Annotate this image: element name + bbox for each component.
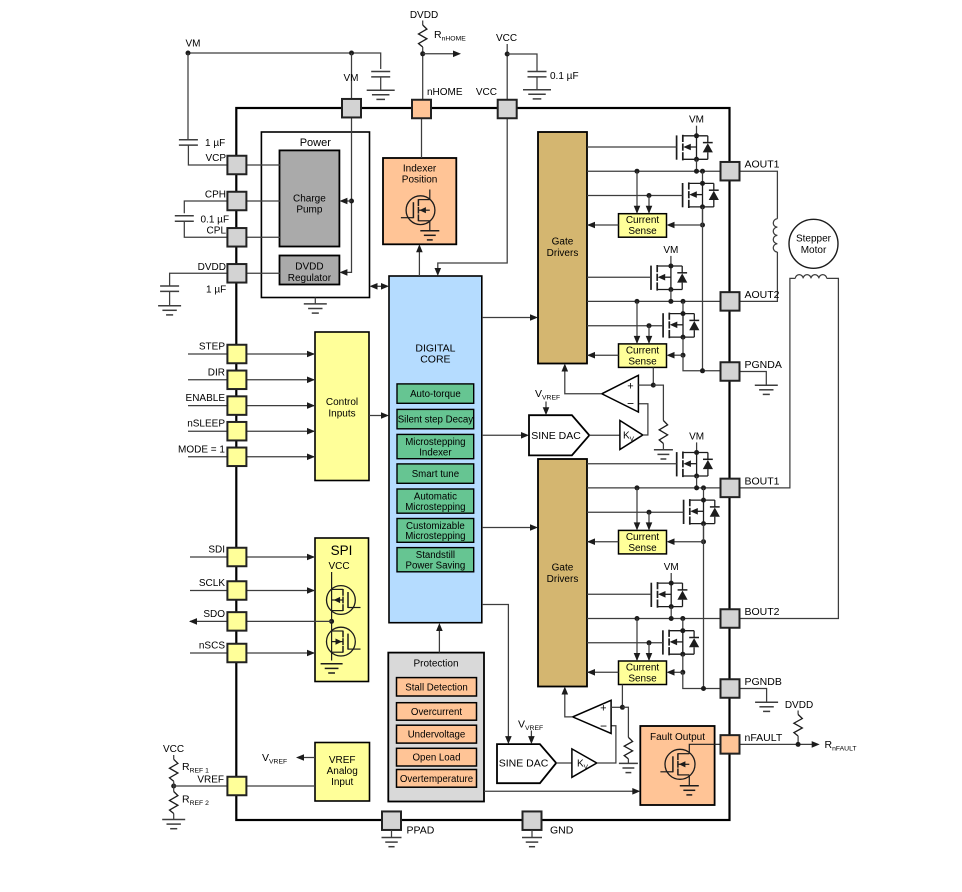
feature box: Customizable Microstepping — [397, 519, 474, 543]
wire nSCS — [190, 652, 315, 654]
pin DIR (left) — [227, 371, 246, 390]
wire nHOME pin to indexer block — [421, 118, 423, 158]
svg-text:+: + — [627, 381, 633, 393]
pin MODE = 1 (left) — [227, 448, 246, 467]
wire RnHOME to nHOME pin — [422, 47, 424, 100]
wire cap to ground — [380, 77, 382, 90]
svg-text:0.1 µF: 0.1 µF — [201, 215, 230, 226]
node source low A2 — [681, 335, 686, 340]
node drain low A1 — [700, 181, 705, 186]
wire to sense resistor A — [653, 385, 663, 420]
node source low A1 — [700, 204, 705, 209]
node drain high B1 — [694, 450, 699, 455]
bidirectional wire power block - digital core — [373, 285, 386, 287]
wire DIR input — [188, 379, 315, 381]
svg-text:VCP: VCP — [205, 153, 226, 164]
sense resistor B — [624, 737, 632, 759]
charge pump block — [280, 150, 340, 246]
DVDD regulator block — [280, 256, 340, 285]
node nFAULT pull-up — [796, 742, 801, 747]
SPI ground — [321, 663, 343, 665]
arrowhead ENABLE into control inputs — [307, 402, 315, 409]
svg-text:Smart tune: Smart tune — [412, 469, 459, 480]
arrowhead VCC into digital core — [435, 268, 442, 276]
wire digital core to sine dac B — [482, 605, 508, 742]
wire output to low drain A2 — [682, 301, 684, 313]
node comparator B plus — [620, 705, 625, 710]
svg-text:STEP: STEP — [199, 342, 225, 353]
high-side FET A1 — [677, 135, 713, 161]
svg-text:VM: VM — [663, 245, 678, 256]
svg-text:Sense: Sense — [628, 356, 657, 367]
sense arrow from gate wire B1 — [648, 512, 650, 529]
ground at PGNDB — [755, 701, 778, 703]
svg-text:VM: VM — [689, 115, 704, 126]
arrowhead current sense to gate drivers A1 — [587, 222, 595, 229]
svg-text:Current: Current — [626, 532, 660, 543]
wire high source to output A2 — [670, 290, 672, 302]
comparator B plus input wire — [611, 706, 622, 708]
pin BOUT2 (right) — [721, 609, 740, 628]
svg-text:Indexer: Indexer — [419, 447, 452, 458]
pin SCLK (left) — [227, 581, 246, 600]
wire current sense output B1 — [587, 541, 619, 543]
arrowhead VVREF out — [296, 754, 304, 761]
SPI block — [315, 538, 369, 682]
node sense tap B2 — [680, 670, 685, 675]
pin SDO (left) — [227, 612, 246, 631]
protection feature box: Undervoltage — [397, 725, 477, 743]
current sense block A2 — [619, 344, 667, 368]
svg-text:Gate: Gate — [552, 563, 574, 574]
current sense block A1 — [619, 214, 667, 238]
svg-text:VM: VM — [186, 39, 201, 50]
wire high source to output B2 — [670, 607, 672, 619]
svg-text:CORE: CORE — [420, 354, 450, 366]
svg-text:Gate: Gate — [552, 237, 574, 248]
svg-text:DVDD: DVDD — [785, 700, 813, 711]
node comparator A plus — [651, 383, 656, 388]
sense resistor A — [659, 421, 667, 444]
sense bus A to PGNDA — [702, 207, 704, 371]
svg-text:Auto-torque: Auto-torque — [410, 389, 461, 400]
svg-text:Protection: Protection — [413, 659, 458, 670]
wire cap to VCP pin — [188, 145, 227, 165]
VVREF reference output wire — [303, 757, 315, 759]
stepper motor circle — [789, 219, 838, 268]
arrowhead into current sense A1 (right) — [667, 222, 675, 229]
low-side FET B1 — [684, 499, 720, 525]
arrowhead MODE = 1 into control inputs — [307, 454, 315, 461]
svg-text:SINE DAC: SINE DAC — [499, 758, 549, 770]
svg-text:VCC: VCC — [496, 33, 517, 44]
wire high source to output B1 — [696, 476, 698, 488]
wire RREF2 to ground — [173, 814, 175, 820]
nFAULT external wire — [740, 743, 815, 745]
svg-text:Sense: Sense — [628, 543, 657, 554]
svg-text:DIR: DIR — [208, 367, 225, 378]
svg-text:Overcurrent: Overcurrent — [411, 707, 462, 718]
node output-CS A1 — [635, 169, 640, 174]
svg-text:VCC: VCC — [163, 744, 184, 755]
node drain high B2 — [669, 581, 674, 586]
wire DVDD to regulator — [246, 272, 280, 274]
wire MODE = 1 input — [188, 456, 315, 458]
sense arrow from gate wire B2 — [648, 643, 650, 660]
pin VCP (left) — [227, 156, 246, 175]
svg-text:BOUT2: BOUT2 — [745, 606, 780, 618]
pin CPH (left) — [227, 192, 246, 211]
feature box: Standstill Power Saving — [397, 548, 474, 572]
node on VM rail at VM pin — [349, 51, 354, 56]
resistor RREF2 — [170, 792, 178, 814]
external wire AOUT1 to motor winding A — [740, 171, 778, 219]
VM internal supply wire — [343, 117, 352, 272]
arrowhead nSLEEP into control inputs — [307, 428, 315, 435]
wire current sense output A2 — [587, 354, 619, 356]
PPAD ground — [391, 830, 393, 837]
feature box: Microstepping Indexer — [397, 434, 474, 458]
svg-text:VCC: VCC — [328, 561, 349, 572]
wire current sense B2 to comparator plus — [621, 685, 623, 708]
arrowhead into digital core (control) — [381, 412, 389, 419]
wire VM rail down to VM pin — [351, 53, 353, 99]
feature box: Auto-torque — [397, 384, 474, 403]
gate drivers block B — [538, 459, 587, 687]
pin PGNDB (right) — [721, 679, 740, 698]
wire control inputs to digital core — [369, 415, 386, 417]
wire low source to sense tap B1 — [703, 524, 705, 542]
arrowhead current sense to gate drivers B2 — [587, 669, 595, 676]
svg-text:Charge: Charge — [293, 194, 326, 205]
ground of sense resistor B — [619, 762, 638, 764]
node drain low B1 — [701, 498, 706, 503]
comparator A plus input wire — [638, 384, 653, 386]
wire STEP input — [188, 353, 315, 355]
wire nSLEEP input — [188, 430, 315, 432]
arrowhead into fault output block — [632, 788, 640, 795]
wire protection to digital core — [438, 629, 440, 653]
pin GND (bottom) — [523, 811, 542, 830]
svg-text:Drivers: Drivers — [547, 574, 579, 585]
arrowhead into gate drivers A — [530, 314, 538, 321]
GND ground — [531, 830, 533, 837]
output wire A1 — [587, 170, 721, 172]
sine dac B — [497, 744, 556, 783]
sense arrow from output wire B2 — [636, 619, 638, 661]
svg-text:Sense: Sense — [628, 226, 657, 237]
ground inside indexer block — [429, 221, 431, 231]
pin PGNDA (right) — [721, 362, 740, 381]
node gate-CS B1 — [647, 510, 652, 515]
node output low A1 — [700, 169, 705, 174]
wire to sense resistor B — [622, 707, 628, 737]
wire DVDD pin to 1uF cap — [170, 273, 228, 286]
high-side FET B2 — [651, 582, 687, 608]
wire node to charge pump — [343, 200, 352, 202]
ground of power block — [314, 298, 316, 304]
wire VCP to charge pump — [246, 164, 280, 166]
svg-text:1 µF: 1 µF — [206, 285, 226, 296]
control inputs block — [315, 332, 369, 481]
Kv gain amp A — [620, 421, 643, 450]
svg-text:VREF: VREF — [197, 775, 224, 786]
sense bus B to PGNDB — [703, 524, 705, 689]
wire cap to ground — [536, 77, 538, 90]
wire B2 sense to PGNDB rail — [683, 672, 721, 688]
node output high A2 — [668, 299, 673, 304]
svg-text:−: − — [627, 397, 634, 411]
node drain low A2 — [681, 311, 686, 316]
wire sine dac B to Kv B — [556, 762, 572, 764]
pin nSCS (left) — [227, 644, 246, 663]
sense arrow from output wire B1 — [636, 488, 638, 530]
feature box: Smart tune — [397, 464, 474, 483]
gate drivers block A — [538, 132, 587, 364]
node gate-CS B2 — [647, 640, 652, 645]
wire output to low drain B1 — [703, 488, 705, 500]
node sense tap A1 — [700, 223, 705, 228]
gate wire low-side B2 — [587, 642, 663, 644]
protection feature box: Overcurrent — [397, 703, 477, 721]
pin BOUT1 (right) — [721, 479, 740, 498]
wire CPL to charge pump — [246, 236, 280, 238]
pin nSLEEP (left) — [227, 422, 246, 441]
resistor RREF1 — [170, 759, 178, 781]
low-side FET A1 — [683, 182, 719, 208]
fault output block — [640, 726, 714, 805]
indexer position block — [383, 158, 456, 244]
svg-text:Undervoltage: Undervoltage — [408, 730, 466, 741]
svg-text:DVDD: DVDD — [295, 262, 323, 273]
wire VM rail to VCP decoupling cap — [187, 53, 189, 140]
motor winding B coil — [795, 275, 826, 279]
wire VCC to VCC pin — [506, 44, 508, 100]
arrowhead SCLK into SPI — [307, 587, 315, 594]
wire DVDD to RnFAULT — [797, 711, 799, 715]
pin CPL (left) — [227, 228, 246, 247]
wire current sense output B2 — [587, 671, 619, 673]
svg-text:nSCS: nSCS — [199, 641, 225, 652]
wire CPH pin to flying cap — [184, 201, 228, 213]
output wire B2 — [587, 618, 721, 620]
node VM rail left end — [186, 51, 191, 56]
arrowhead into current sense A2 (right) — [667, 352, 675, 359]
svg-text:VM: VM — [689, 431, 704, 442]
wire RnFAULT to nFAULT node — [797, 736, 799, 744]
arrowhead comparator B to gate drivers — [562, 687, 569, 695]
high-side FET A2 — [651, 265, 687, 291]
wire protection to fault output block — [484, 790, 637, 792]
svg-text:Indexer: Indexer — [403, 164, 437, 175]
wire divider node to VREF pin and block — [173, 781, 175, 791]
node output high B1 — [694, 485, 699, 490]
gate wire high-side B1 — [587, 463, 677, 465]
svg-text:nFAULT: nFAULT — [745, 732, 783, 744]
arrowhead into gate drivers B — [530, 524, 538, 531]
svg-text:Sense: Sense — [628, 674, 657, 685]
arrowhead to power block — [370, 283, 378, 290]
bulk capacitor on VM rail — [371, 71, 390, 73]
arrowhead SDI into SPI — [307, 554, 315, 561]
wire low source to sense tap A2 — [682, 337, 684, 355]
node output low B1 — [701, 485, 706, 490]
wire DVDD to RnHOME — [422, 21, 424, 26]
svg-text:Silent step Decay: Silent step Decay — [398, 415, 474, 426]
sine dac A — [529, 415, 589, 455]
wire current sense A2 to comparator plus — [652, 367, 654, 385]
svg-text:Inputs: Inputs — [328, 409, 355, 420]
svg-text:Stepper: Stepper — [796, 234, 832, 245]
wire sense tap to current sense B2 — [670, 671, 683, 673]
svg-text:Stall Detection: Stall Detection — [405, 682, 467, 693]
wire sense tap to current sense A1 — [670, 224, 703, 226]
node nHOME pull-up — [420, 51, 425, 56]
svg-text:nSLEEP: nSLEEP — [187, 419, 225, 430]
arrowhead DIR into control inputs — [307, 377, 315, 384]
external wire winding B to BOUT2 — [740, 278, 839, 618]
svg-text:Power Saving: Power Saving — [406, 561, 466, 572]
external wire winding A to AOUT2 — [740, 252, 778, 301]
VM lead A2 high-side — [670, 256, 672, 266]
svg-text:Position: Position — [402, 175, 438, 186]
svg-text:Input: Input — [331, 777, 353, 788]
pin STEP (left) — [227, 345, 246, 364]
node output high A1 — [694, 169, 699, 174]
svg-text:Pump: Pump — [296, 205, 323, 216]
arrowhead into current sense B1 (right) — [667, 538, 675, 545]
svg-text:DVDD: DVDD — [198, 262, 226, 273]
SPI pull-down transistor Q11 — [327, 627, 361, 656]
arrowhead nFAULT external — [812, 741, 820, 748]
pin nFAULT (right) — [721, 735, 740, 754]
svg-text:PPAD: PPAD — [407, 825, 435, 837]
VVREF arrow into sine dac B — [530, 731, 532, 741]
SPI VCC lead — [331, 572, 333, 589]
svg-text:1 µF: 1 µF — [205, 138, 225, 149]
svg-text:CPH: CPH — [205, 190, 226, 201]
pin DVDD (left) — [227, 264, 246, 283]
pin nHOME (top) — [412, 100, 431, 119]
wire Kv A to comparator minus — [638, 404, 648, 435]
node source high A1 — [694, 157, 699, 162]
arrowhead current sense to gate drivers B1 — [587, 538, 595, 545]
pin VM (top) — [342, 99, 361, 118]
svg-text:SPI: SPI — [331, 543, 353, 558]
svg-text:MODE = 1: MODE = 1 — [178, 444, 225, 455]
wire digital core to sine dac A — [482, 434, 526, 436]
gate wire low-side A2 — [587, 325, 663, 327]
svg-text:SDI: SDI — [208, 545, 225, 556]
drain stub of Q9 — [429, 190, 431, 200]
PGNDB external ground wire — [740, 689, 767, 703]
high-side FET B1 — [677, 452, 713, 478]
node drain high A1 — [694, 133, 699, 138]
node VM to charge pump — [349, 199, 354, 204]
svg-text:Power: Power — [300, 137, 332, 149]
svg-text:Regulator: Regulator — [288, 273, 332, 284]
node PGNDA junction — [700, 368, 705, 373]
node output-CS B1 — [635, 485, 640, 490]
branch wire to internal logic — [423, 53, 454, 55]
pin PPAD (bottom) — [382, 811, 401, 830]
VM rail wire — [188, 53, 381, 69]
low-side FET B2 — [663, 630, 699, 656]
svg-text:Current: Current — [626, 663, 660, 674]
power block box — [261, 132, 369, 298]
pin SDI (left) — [227, 548, 246, 567]
wire ENABLE input — [188, 405, 315, 407]
arrowhead current sense to gate drivers A2 — [587, 352, 595, 359]
flying capacitor 0.1uF CPH-CPL — [175, 215, 194, 217]
VM lead B2 high-side — [670, 573, 672, 583]
node gate-CS A2 — [647, 323, 652, 328]
wire sense tap to current sense B1 — [670, 541, 704, 543]
svg-text:CPL: CPL — [207, 226, 227, 237]
protection block — [388, 653, 484, 802]
VVREF arrow into sine dac A — [545, 402, 547, 412]
arrowhead STEP into control inputs — [307, 351, 315, 358]
arrowhead to digital core — [381, 283, 389, 290]
svg-text:DVDD: DVDD — [410, 10, 438, 21]
svg-text:VREF: VREF — [329, 755, 356, 766]
node output-CS A2 — [635, 299, 640, 304]
Kv gain amp B — [572, 749, 597, 777]
pin VREF (left) — [227, 777, 246, 796]
arrowhead comparator A to gate drivers — [562, 364, 569, 372]
sense arrow from gate wire A2 — [648, 326, 650, 343]
arrowhead protection into digital core — [436, 623, 443, 631]
node sense tap B1 — [701, 539, 706, 544]
PGNDA external ground wire — [740, 372, 767, 386]
wire sense resistor B to ground — [627, 759, 629, 763]
SDO output node — [329, 619, 334, 624]
wire output to low drain B2 — [682, 619, 684, 631]
protection feature box: Overtemperature — [397, 770, 477, 788]
arrowhead into indexer block — [416, 244, 423, 252]
gate wire high-side B2 — [587, 593, 651, 595]
svg-text:PGNDA: PGNDA — [745, 359, 782, 371]
external wire BOUT1 to winding B — [740, 278, 796, 488]
wire low source to sense tap B2 — [682, 654, 684, 672]
svg-text:Analog: Analog — [327, 766, 358, 777]
node drain low B2 — [680, 628, 685, 633]
node drain high A2 — [668, 264, 673, 269]
pull-up resistor RnFAULT — [794, 715, 802, 737]
ground of VREF divider — [162, 819, 185, 821]
sense arrow from output wire A1 — [636, 171, 638, 213]
svg-text:Motor: Motor — [801, 245, 827, 256]
svg-text:nHOME: nHOME — [427, 87, 463, 98]
node source low B2 — [680, 652, 685, 657]
current sense block B1 — [619, 530, 667, 554]
wire flying cap to CPL pin — [184, 221, 228, 237]
SPI pull-up transistor Q10 — [327, 586, 361, 615]
wire VCC to RREF1 — [173, 755, 175, 759]
wire digital core to gate drivers B — [482, 527, 535, 529]
svg-text:SINE DAC: SINE DAC — [531, 430, 581, 442]
svg-text:PGNDB: PGNDB — [745, 676, 782, 688]
wire high source to output A1 — [696, 159, 698, 171]
node source high B2 — [669, 604, 674, 609]
drain wire of Q12 to nFAULT — [689, 744, 720, 754]
node source low B1 — [701, 521, 706, 526]
svg-text:VCC: VCC — [476, 87, 497, 98]
1uF VCP capacitor — [179, 139, 198, 141]
arrowhead into charge pump — [339, 198, 347, 205]
gate wire low-side B1 — [587, 511, 684, 513]
wire VCC pin into digital core — [438, 118, 507, 271]
